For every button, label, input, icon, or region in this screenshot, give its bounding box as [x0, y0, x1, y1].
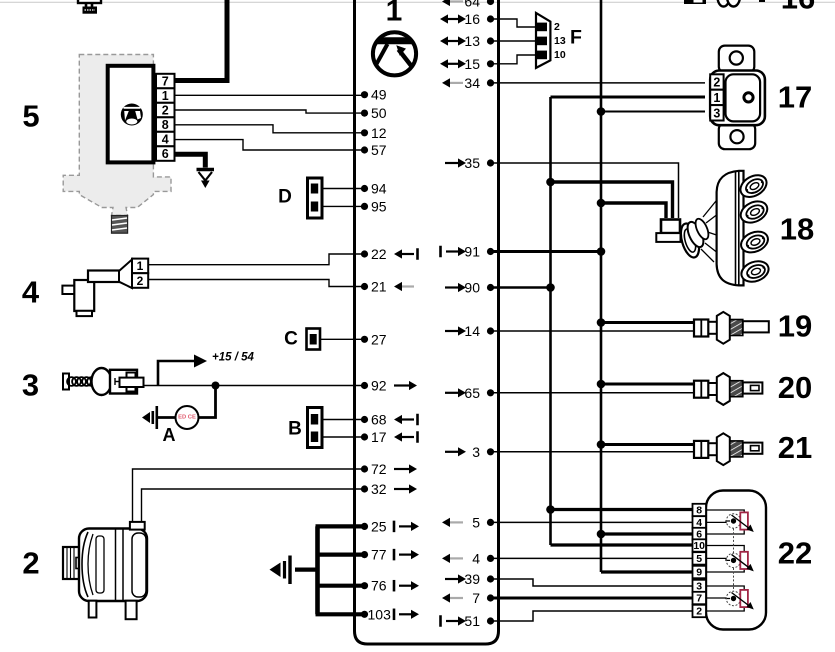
temperature sensor 19	[694, 312, 769, 344]
svg-text:2: 2	[554, 21, 560, 33]
svg-text:12: 12	[371, 125, 387, 141]
harness shield symbol on ground bus	[270, 556, 291, 585]
ECU pin 16 (right)	[440, 11, 494, 27]
potentiometer 1 inside 22	[706, 510, 754, 534]
wire 4 pin2 to ECU pin 21	[148, 280, 364, 287]
wire bus x601 to 17 pin 3	[601, 111, 705, 113]
ECU pin 76 (left)	[361, 578, 419, 594]
label 1	[386, 0, 403, 28]
svg-text:21: 21	[778, 430, 812, 465]
svg-text:14: 14	[464, 323, 480, 339]
ECU pin 57 (left)	[361, 142, 387, 158]
svg-text:10: 10	[693, 540, 705, 552]
wire bus x601 to 22 pin 6 (thick)	[601, 532, 693, 535]
ECU pin 21 (left)	[361, 279, 414, 295]
wire ECU pin 5 to 22 pin 4	[491, 521, 694, 523]
svg-text:2: 2	[162, 104, 169, 118]
svg-text:ED CE: ED CE	[178, 415, 196, 421]
svg-text:51: 51	[464, 613, 480, 629]
svg-text:21: 21	[371, 279, 387, 295]
svg-text:32: 32	[371, 481, 387, 497]
ECU pin 4 (right)	[442, 550, 494, 566]
svg-text:34: 34	[464, 75, 480, 91]
sensor 4 body	[62, 260, 132, 317]
svg-text:103: 103	[368, 606, 392, 622]
wire ECU pin 13 to F pin 13	[491, 40, 537, 42]
injector connector of 18	[656, 220, 680, 242]
injector body of 18	[677, 201, 716, 262]
label D	[278, 187, 292, 208]
svg-text:15: 15	[464, 56, 480, 72]
svg-text:9: 9	[696, 566, 702, 578]
ECU pin 50 (left)	[361, 105, 387, 121]
bus wire vertical x601	[600, 0, 603, 572]
svg-text:57: 57	[371, 142, 387, 158]
svg-text:5: 5	[472, 514, 480, 530]
svg-text:3: 3	[696, 580, 702, 592]
svg-text:8: 8	[162, 118, 169, 132]
wire bus x550 to injector connector (thick)	[551, 182, 673, 218]
label 2	[22, 546, 39, 581]
svg-text:94: 94	[371, 181, 387, 197]
label 21	[778, 430, 812, 465]
pressure sensor 20	[694, 373, 762, 405]
label 19	[778, 309, 812, 344]
wire D pin1 to ECU pin 94	[322, 188, 365, 190]
svg-text:7: 7	[162, 75, 169, 89]
wire pin2 of 5 to ECU pin 50	[175, 110, 365, 113]
ECU pin 25 (left)	[361, 518, 419, 534]
label 5	[22, 99, 39, 134]
svg-text:5: 5	[22, 99, 39, 134]
junction node on wire 92	[212, 382, 220, 390]
wire pin8 of 5 to ECU pin 12	[175, 125, 365, 133]
wire C to ECU pin 27	[320, 338, 365, 340]
wire B pin1 to ECU pin 68	[322, 419, 365, 421]
potentiometer 3 inside 22	[706, 586, 754, 611]
wire bus x550 to 22 pin 10 (thick)	[551, 543, 694, 546]
potentiometer 2 inside 22	[706, 546, 754, 573]
wire pin1 of 5 to ECU pin 49	[175, 94, 365, 96]
dotted wiper common line of 22	[733, 529, 735, 592]
svg-text:8: 8	[696, 504, 702, 516]
svg-text:22: 22	[371, 246, 387, 262]
speedometer icon of ECU 1	[372, 32, 417, 75]
svg-text:A: A	[163, 425, 176, 445]
ECU pin 77 (left)	[361, 547, 419, 563]
svg-text:16: 16	[464, 11, 480, 27]
speedometer icon of component 5	[121, 104, 143, 126]
svg-text:76: 76	[371, 578, 387, 594]
svg-text:D: D	[278, 187, 292, 208]
throttle body assembly 22	[706, 491, 766, 630]
ECU pin 13 (right)	[440, 33, 494, 49]
connector D	[308, 178, 323, 218]
ECU pin 12 (left)	[361, 125, 387, 141]
ECU pin 35 (right)	[445, 155, 494, 171]
svg-text:17: 17	[371, 429, 387, 445]
wire pin6 of 5 to ground (thick)	[175, 154, 206, 167]
ECU pin 5 (right)	[442, 514, 494, 530]
svg-text:2: 2	[713, 76, 720, 90]
wire ECU pin 14 to sensor 19	[491, 330, 696, 332]
ECU pin 34 (right)	[442, 75, 494, 91]
svg-text:25: 25	[371, 518, 387, 534]
svg-text:13: 13	[464, 33, 480, 49]
label 17	[778, 80, 812, 115]
label 20	[778, 370, 812, 405]
svg-text:20: 20	[778, 370, 812, 405]
wire bus x550 to 17 pin 1	[551, 96, 706, 99]
label +15 / 54	[212, 352, 254, 364]
svg-text:90: 90	[464, 280, 480, 296]
svg-text:16: 16	[781, 0, 815, 16]
wire bus x601 to sensor 19 (thick)	[601, 321, 695, 324]
cut-off sensor at top right	[684, 0, 765, 7]
svg-text:91: 91	[464, 244, 480, 260]
svg-text:72: 72	[371, 461, 387, 477]
sensor 3 body	[63, 368, 144, 395]
svg-text:35: 35	[464, 155, 480, 171]
svg-text:4: 4	[22, 275, 40, 310]
intake manifold of 18	[717, 171, 772, 286]
distributor silhouette of component 5	[63, 55, 171, 234]
wire B pin2 to ECU pin 17	[322, 436, 365, 438]
svg-text:3: 3	[22, 368, 39, 403]
ECU pin 7 (right)	[442, 590, 494, 606]
ECU control unit 1 body	[355, 0, 499, 644]
svg-text:2: 2	[137, 274, 144, 288]
ECU pin 72 (left)	[361, 461, 417, 477]
alternator 2	[63, 522, 147, 619]
wire bus x601 to sensor 21 (thick)	[601, 443, 695, 446]
wire alternator to ECU pin 72	[133, 469, 365, 522]
label C	[284, 329, 298, 350]
pressure sensor 21	[694, 433, 762, 465]
svg-text:18: 18	[780, 212, 814, 247]
svg-text:68: 68	[371, 412, 387, 428]
ground symbol	[197, 170, 215, 189]
label F	[570, 27, 582, 49]
relay/sensor 17	[710, 46, 765, 150]
label 22	[778, 536, 812, 571]
ECU pin 94 (left)	[361, 181, 387, 197]
wire ECU pin 16 to F pin 2	[491, 19, 537, 27]
ECU pin 22 (left)	[361, 246, 418, 262]
fuse holder (cut off at top)	[78, 0, 101, 14]
wire ECU pin 3 to sensor 21	[491, 451, 696, 453]
ECU pin 14 (right)	[445, 323, 494, 339]
svg-text:1: 1	[137, 259, 144, 273]
svg-text:92: 92	[371, 378, 387, 394]
svg-text:1: 1	[386, 0, 403, 28]
svg-text:5: 5	[696, 553, 702, 565]
svg-text:+15 / 54: +15 / 54	[212, 352, 254, 364]
label B	[288, 419, 302, 440]
wire ECU pin 4 to 22 pin 5	[491, 557, 694, 559]
wire ECU pin 34 to 17 pin 2	[491, 82, 706, 84]
connector pin strip of component 5 (pins 7,1,2,8,4,6)	[156, 74, 175, 161]
wire ECU pin 91 to bus x601	[491, 250, 602, 253]
label 3	[22, 368, 39, 403]
wire from A to harness shield symbol	[158, 416, 176, 419]
branch wire to +15/54 with arrow	[158, 355, 207, 386]
wire ECU pin 90 to bus x550	[491, 286, 551, 289]
svg-text:22: 22	[778, 536, 812, 571]
wire sensor 3 to ECU pin 92	[144, 385, 365, 387]
bus wire vertical x550	[549, 97, 552, 545]
wire bus x601 to injector connector (thick)	[601, 203, 666, 218]
wire ECU pin 7 to 22 pin 7 (thick)	[491, 597, 694, 600]
wire alternator to ECU pin 32	[142, 489, 365, 522]
ECU pin 65 (right)	[445, 385, 494, 401]
svg-text:4: 4	[162, 133, 169, 147]
svg-text:19: 19	[778, 309, 812, 344]
svg-text:27: 27	[371, 331, 387, 347]
svg-text:1: 1	[162, 89, 169, 103]
wire ECU pin 15 to F pin 10	[491, 55, 537, 64]
ECU pin 49 (left)	[361, 87, 387, 103]
label A	[163, 425, 176, 445]
svg-text:13: 13	[554, 35, 566, 47]
ECU pin 91 (right)	[441, 244, 495, 260]
connector F	[536, 13, 566, 68]
svg-text:C: C	[284, 329, 298, 350]
wire bus x550 to 22 pin 8 (thick)	[551, 508, 694, 511]
svg-text:77: 77	[371, 547, 387, 563]
wire junction down to telltale A	[199, 386, 216, 418]
svg-text:B: B	[288, 419, 302, 440]
svg-text:7: 7	[472, 590, 480, 606]
connector pins 1,2 of sensor 4	[132, 259, 148, 288]
label 4	[22, 275, 40, 310]
svg-text:4: 4	[472, 550, 480, 566]
svg-text:17: 17	[778, 80, 812, 115]
wire 4 pin1 to ECU pin 22	[148, 254, 364, 265]
svg-text:3: 3	[472, 444, 480, 460]
svg-text:49: 49	[371, 87, 387, 103]
harness shield symbol near A	[142, 406, 157, 429]
wire ECU pin 65 to sensor 20	[491, 392, 696, 394]
ECU pin 64 (right)	[442, 0, 494, 10]
wire ECU pin 51 to 22 pin 2	[491, 611, 694, 621]
ECU pin 32 (left)	[361, 481, 417, 497]
wire bus x601 to 22 pin 9 (thick)	[601, 570, 693, 573]
connector C	[307, 329, 321, 350]
svg-text:1: 1	[713, 91, 720, 105]
connector pin strip of 22 (pins 8,4,6,10,5,9,3,7,2)	[693, 504, 707, 618]
svg-text:7: 7	[696, 592, 702, 604]
ECU pin 92 (left)	[361, 378, 417, 394]
svg-text:2: 2	[696, 605, 702, 617]
svg-text:64: 64	[464, 0, 480, 10]
svg-text:10: 10	[554, 49, 566, 61]
ECU pin 3 (right)	[445, 444, 494, 460]
wire ECU pin 35 to injector connector	[491, 163, 679, 218]
ECU pin 95 (left)	[361, 198, 387, 214]
svg-text:65: 65	[464, 385, 480, 401]
svg-text:3: 3	[713, 106, 720, 120]
svg-text:2: 2	[22, 546, 39, 581]
connector pins 2,1,3 of 17	[710, 74, 723, 120]
ECU pin 51 (right)	[441, 613, 495, 629]
svg-text:6: 6	[162, 147, 169, 161]
svg-text:F: F	[570, 27, 582, 49]
ECU pin 17 (left)	[361, 429, 418, 445]
label 18	[780, 212, 814, 247]
ground bus wire to ECU pins 25,77,76,103 (thick)	[295, 526, 365, 614]
telltale lamp A	[176, 406, 199, 429]
wire bus x601 to sensor 20 (thick)	[601, 383, 695, 386]
wire D pin2 to ECU pin 95	[322, 205, 365, 207]
ECU pin 68 (left)	[361, 412, 418, 428]
ECU pin 103 (left)	[361, 606, 419, 622]
ECU pin 15 (right)	[440, 56, 494, 72]
ECU pin 27 (left)	[361, 331, 387, 347]
ECU pin 90 (right)	[445, 280, 494, 296]
svg-text:50: 50	[371, 105, 387, 121]
svg-text:39: 39	[464, 571, 480, 587]
wire pin7 of 5 to battery supply (thick)	[175, 0, 228, 81]
module box of component 5	[108, 66, 154, 163]
ECU pin 39 (right)	[445, 571, 494, 587]
wire pin4 of 5 to ECU pin 57	[175, 140, 365, 150]
connector B	[308, 408, 323, 448]
svg-text:95: 95	[371, 198, 387, 214]
cut-off label 16 at top right	[781, 0, 815, 16]
wire ECU pin 39 to 22 pin 3	[491, 579, 694, 586]
